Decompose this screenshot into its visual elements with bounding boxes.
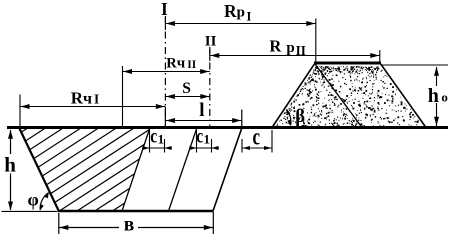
dimension S (165, 80, 209, 99)
trench right slope (213, 128, 242, 212)
svg-text:II: II (205, 33, 217, 49)
svg-text:1: 1 (204, 131, 211, 146)
axis line I (dash-dot) (164, 16, 166, 127)
dimension c1 right (189, 124, 219, 152)
dimension c (242, 125, 272, 152)
svg-text:I: I (161, 0, 168, 19)
svg-text:c: c (253, 125, 261, 150)
svg-text:RчI: RчI (71, 89, 100, 108)
dimension h (2, 130, 58, 212)
ground line (7, 126, 448, 129)
angle phi with arc (28, 190, 49, 211)
dimension RchI (20, 89, 165, 128)
svg-text:c: c (150, 124, 157, 146)
svg-text:S: S (182, 80, 191, 97)
dimension RchII (123, 55, 210, 127)
spoil pile internal slope (315, 64, 362, 128)
spoil pile top edge (thick) (314, 62, 381, 65)
dimension v bottom width (59, 212, 214, 236)
svg-text:c: c (196, 124, 203, 146)
svg-text:β: β (295, 107, 305, 127)
trench left slope (19, 128, 59, 212)
trench internal slope 2 (169, 128, 198, 212)
dimension h0 (381, 65, 449, 126)
dimension RpII (210, 37, 380, 64)
trench bottom (58, 210, 214, 213)
dimension RpI (165, 1, 315, 63)
svg-text:в: в (124, 215, 135, 236)
axis line II (dash-dot) (209, 47, 211, 127)
dimension l (165, 100, 241, 128)
spoil pile outline (272, 63, 426, 128)
dimension c1 left (142, 124, 172, 152)
angle beta with arc (286, 107, 305, 127)
svg-text:l: l (199, 100, 204, 121)
svg-text:φ: φ (28, 190, 39, 210)
trench internal slope 1 (122, 128, 150, 212)
svg-text:1: 1 (158, 131, 165, 146)
svg-text:h: h (4, 152, 16, 176)
